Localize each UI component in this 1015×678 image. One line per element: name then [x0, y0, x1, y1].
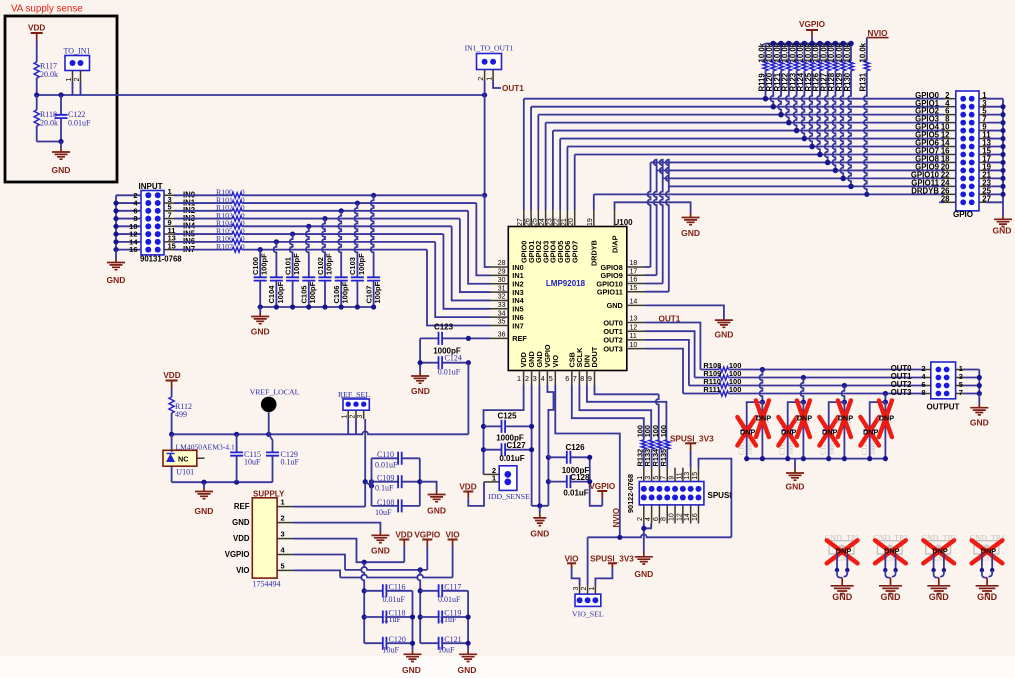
capacitor C110 0.01uF	[372, 457, 399, 459]
wire	[884, 554, 886, 570]
wire	[987, 130, 1003, 132]
ground GND	[259, 307, 261, 313]
wire R122 to row	[786, 71, 789, 123]
wire row OUT3	[683, 393, 719, 395]
ic U100 LMP92018 body	[508, 227, 627, 371]
svg-text:DNP: DNP	[781, 427, 797, 436]
wire	[987, 177, 1003, 179]
pin 2 GND	[531, 371, 533, 386]
capacitor C105 100pF	[306, 226, 309, 277]
pin stub 3	[164, 202, 174, 204]
pin stub 11	[164, 233, 174, 235]
junction	[418, 588, 423, 593]
junction	[1000, 184, 1005, 189]
wire R130 to row	[848, 71, 851, 187]
junction	[842, 400, 847, 405]
pin stub 21	[979, 177, 987, 179]
junction	[840, 41, 846, 47]
wire	[837, 570, 847, 578]
junction	[835, 568, 839, 572]
ground GND	[690, 213, 692, 218]
pin stub 1	[594, 585, 596, 594]
wire row OUT2	[689, 385, 719, 387]
junction	[1000, 136, 1005, 141]
pin 22 GPIO5	[559, 210, 561, 227]
resistor R107 0	[232, 247, 242, 252]
junction	[977, 391, 982, 396]
pin stub 16	[944, 153, 956, 155]
svg-text:90122-0768: 90122-0768	[626, 474, 635, 513]
svg-text:R130: R130	[843, 72, 852, 91]
svg-text:10: 10	[630, 342, 638, 349]
pin 13 OUT0	[627, 322, 645, 324]
wire	[987, 98, 1003, 100]
svg-text:DNP: DNP	[797, 414, 813, 423]
svg-text:1: 1	[281, 498, 285, 507]
svg-text:29: 29	[498, 269, 506, 276]
junction	[786, 120, 792, 126]
svg-text:NVIO: NVIO	[868, 29, 889, 38]
wire R126 to row	[817, 71, 820, 155]
wire R121 to row	[778, 71, 781, 115]
pin 3 GND	[538, 371, 540, 386]
resistor R127 10.0k	[827, 44, 829, 61]
pin stub 4	[651, 505, 653, 524]
pin 23 GPIO4	[552, 210, 554, 227]
wire	[885, 570, 895, 578]
wire vref rail	[172, 431, 469, 434]
wire REF to rail	[467, 363, 469, 435]
wire	[666, 449, 668, 468]
junction	[809, 41, 815, 47]
svg-text:0.01uF: 0.01uF	[438, 595, 461, 604]
svg-text:DRDYB: DRDYB	[590, 240, 599, 266]
ground GND	[436, 491, 438, 495]
junction	[234, 432, 239, 437]
svg-text:16: 16	[129, 245, 137, 254]
junction	[845, 568, 849, 572]
svg-text:GND: GND	[607, 301, 623, 310]
svg-text:GND: GND	[977, 592, 998, 602]
pin stub 2	[484, 70, 486, 81]
svg-text:OUTPUT: OUTPUT	[927, 402, 960, 411]
svg-text:10.0k: 10.0k	[859, 42, 868, 62]
svg-text:2: 2	[637, 517, 644, 521]
svg-text:DNP: DNP	[822, 427, 838, 436]
ground GND	[794, 459, 796, 469]
svg-text:R107: R107	[216, 242, 233, 251]
wire IN1	[174, 202, 232, 204]
svg-text:VIO: VIO	[551, 355, 560, 368]
wire GND row	[293, 523, 380, 532]
wire	[595, 568, 612, 585]
pin DAP	[614, 210, 616, 227]
svg-text:10uF: 10uF	[383, 646, 400, 655]
svg-text:26: 26	[524, 218, 531, 226]
wire	[987, 122, 1003, 124]
wire R127 to row	[825, 71, 828, 163]
svg-text:D/AP: D/AP	[610, 235, 619, 253]
pin stub 3	[579, 585, 581, 594]
pin stub 25	[979, 193, 987, 195]
svg-text:REF: REF	[512, 334, 527, 343]
svg-text:28: 28	[941, 194, 950, 203]
pin stub 24	[944, 185, 956, 187]
resistor R135 100	[665, 440, 670, 449]
diode U101 LM4050AEM3-4.1	[171, 434, 173, 450]
junction	[362, 614, 367, 619]
wire row GPIO11	[669, 185, 944, 187]
svg-text:1754494: 1754494	[253, 580, 281, 589]
svg-text:0.1uF: 0.1uF	[281, 458, 300, 467]
junction	[322, 216, 327, 221]
resistor R106 0	[232, 239, 242, 244]
junction	[113, 208, 118, 213]
svg-text:GND: GND	[232, 518, 250, 527]
wire	[982, 570, 992, 578]
ground GND	[412, 650, 414, 654]
svg-text:GND: GND	[681, 228, 700, 238]
ground GND	[115, 250, 117, 259]
pin 36 REF	[490, 337, 508, 339]
capacitor C116 0.01uF	[364, 590, 383, 592]
pin 25 GPIO2	[537, 210, 539, 227]
pin stub 3	[979, 106, 987, 108]
junction	[466, 614, 471, 619]
wire R129 to row	[840, 71, 843, 179]
svg-text:IDD_SENSE: IDD_SENSE	[488, 492, 530, 501]
pin stub 14	[944, 146, 956, 148]
pin 21 GPIO6	[566, 210, 568, 227]
resistor R101 0	[232, 201, 242, 206]
junction	[786, 41, 792, 47]
wire gpio gnd rail	[1002, 99, 1004, 203]
svg-text:4: 4	[281, 546, 286, 555]
wire to gnd	[420, 482, 437, 491]
svg-text:VA supply sense: VA supply sense	[11, 4, 83, 15]
pin stub 9	[674, 468, 676, 482]
pin stub 1	[492, 70, 494, 81]
wire GPIO11	[645, 291, 669, 293]
capacitor C121 10uF	[420, 642, 438, 644]
svg-text:12: 12	[676, 513, 683, 521]
wire input gnd bus	[115, 195, 117, 249]
ground GND	[539, 506, 541, 514]
svg-text:0.01uF: 0.01uF	[438, 368, 461, 377]
junction	[931, 568, 935, 572]
wire row GPIO9	[657, 169, 944, 171]
resistor R121 10.0k	[780, 44, 782, 61]
wire bracket	[590, 457, 603, 506]
ground GND	[715, 320, 733, 327]
junction	[942, 568, 946, 572]
svg-text:OUT0: OUT0	[603, 318, 622, 327]
svg-text:9: 9	[588, 374, 592, 383]
pin stub 22	[944, 177, 956, 179]
junction	[481, 424, 486, 429]
svg-text:OUT3: OUT3	[891, 388, 912, 397]
svg-text:23: 23	[546, 218, 553, 226]
ground GND	[379, 532, 381, 536]
svg-text:C125: C125	[497, 411, 517, 420]
svg-text:12: 12	[630, 324, 638, 331]
junction	[546, 455, 551, 460]
junction	[418, 614, 423, 619]
wire	[987, 106, 1003, 108]
connector OUTPUT	[931, 362, 956, 399]
junction	[58, 139, 63, 144]
svg-text:3: 3	[645, 476, 652, 480]
svg-text:R111: R111	[703, 385, 720, 394]
wire	[116, 233, 141, 235]
wire row GPIO10	[663, 177, 944, 179]
wire R119 to row	[765, 71, 767, 99]
junction	[867, 456, 872, 461]
svg-text:DOUT: DOUT	[590, 346, 599, 367]
resistor R120 10.0k	[772, 44, 774, 61]
capacitor C103 100pF	[354, 203, 357, 277]
svg-text:0.01uF: 0.01uF	[68, 119, 91, 128]
wire tie	[365, 482, 371, 486]
svg-text:11: 11	[676, 472, 683, 479]
ground GND	[938, 578, 940, 586]
capacitor C126 1000pF	[548, 456, 566, 458]
svg-text:16: 16	[692, 513, 699, 521]
wire	[690, 451, 692, 468]
junction	[258, 304, 263, 309]
wire row GPIO0	[524, 98, 944, 100]
wire IN7 to IC	[242, 249, 427, 251]
connector GPIO	[956, 91, 979, 211]
wire row 28 stub	[939, 201, 944, 203]
wire VDD row	[293, 539, 404, 563]
wire SCLK	[579, 385, 651, 440]
wire IN3 to IC	[242, 218, 460, 220]
svg-text:100: 100	[659, 425, 668, 437]
pin stub 11	[682, 468, 684, 482]
dnp capacitor C111	[747, 402, 763, 459]
svg-text:R135: R135	[659, 449, 668, 467]
wire R120 to row	[770, 71, 773, 107]
svg-text:21: 21	[561, 218, 568, 226]
svg-text:0.1uF: 0.1uF	[375, 484, 394, 493]
svg-text:INPUT: INPUT	[139, 182, 163, 191]
capacitor C108 10uF	[372, 505, 399, 507]
dnp resistor R114	[802, 402, 804, 459]
svg-text:2: 2	[350, 415, 357, 419]
junction	[113, 231, 118, 236]
svg-text:3: 3	[533, 374, 537, 383]
svg-text:100pF: 100pF	[341, 281, 350, 303]
pin 3 VDD	[277, 538, 293, 540]
pin 4 VGPIO	[277, 554, 293, 556]
wire	[981, 554, 983, 570]
junction	[466, 360, 471, 365]
svg-text:100pF: 100pF	[373, 281, 382, 303]
wire R123 to row	[794, 71, 797, 131]
pin stub 9	[979, 130, 987, 132]
junction	[355, 304, 360, 309]
pin stub 4	[944, 106, 956, 108]
junction	[266, 432, 271, 437]
wire R125 to row	[809, 71, 812, 147]
svg-text:34: 34	[498, 310, 506, 317]
svg-text:GND: GND	[52, 165, 71, 175]
pin 6 CSB	[571, 371, 573, 386]
svg-text:GND: GND	[714, 330, 733, 340]
junction	[290, 231, 295, 236]
wire	[987, 138, 1003, 140]
wire OUT2	[645, 340, 689, 386]
pin stub 16	[697, 505, 699, 524]
pin stub 15	[164, 249, 174, 251]
wire	[347, 419, 349, 434]
wire bracket	[417, 570, 420, 643]
pin 20 GPIO7	[574, 210, 576, 227]
svg-text:GND: GND	[634, 569, 653, 579]
wire	[963, 385, 979, 387]
capacitor C107 100pF	[371, 195, 374, 277]
wire gnd rail	[532, 505, 549, 507]
junction	[466, 641, 471, 646]
wire	[468, 482, 484, 506]
pin stub 5	[956, 385, 963, 387]
capacitor C127 0.01uF	[484, 449, 502, 451]
junction	[113, 239, 118, 244]
ground GND	[841, 578, 843, 586]
wire row GPIO1	[531, 106, 944, 108]
svg-text:GND: GND	[881, 592, 902, 602]
junction	[417, 479, 422, 484]
resistor R112 499	[171, 388, 173, 397]
svg-text:OUT3: OUT3	[603, 344, 622, 353]
svg-text:10uF: 10uF	[438, 646, 455, 655]
capacitor C117 0.01uF	[420, 590, 438, 592]
ground GND	[467, 650, 469, 654]
svg-text:C124: C124	[445, 354, 462, 363]
pin stub 23	[979, 185, 987, 187]
wire	[987, 201, 1003, 203]
wire	[729, 393, 927, 395]
svg-text:13: 13	[630, 316, 638, 323]
svg-text:8: 8	[661, 517, 668, 521]
capacitor C120 10uF	[364, 642, 383, 644]
svg-text:DNP: DNP	[756, 414, 772, 423]
svg-text:VGPIO: VGPIO	[589, 482, 616, 491]
capacitor C122	[60, 95, 62, 115]
capacitor C124 0.01uF	[420, 362, 438, 364]
wire output gnd rail	[978, 370, 980, 394]
junction	[848, 184, 854, 190]
pin stub 28	[944, 201, 956, 203]
svg-text:8: 8	[921, 388, 925, 397]
svg-text:499: 499	[175, 410, 187, 419]
wire bracket	[412, 591, 414, 651]
svg-text:2: 2	[581, 587, 588, 591]
junction	[977, 375, 982, 380]
pin stub 7	[956, 393, 963, 395]
wire OUT0	[645, 323, 700, 370]
wire	[987, 114, 1003, 116]
svg-text:GPIO: GPIO	[953, 210, 973, 219]
ground GND	[203, 482, 205, 488]
junction	[274, 304, 279, 309]
svg-text:1: 1	[637, 476, 644, 480]
ground GND	[60, 142, 62, 149]
wire REF row	[293, 506, 365, 508]
capacitor C102 100pF	[322, 219, 325, 278]
svg-text:100pF: 100pF	[292, 253, 301, 275]
wire IN3	[174, 218, 232, 220]
pin 4 VGPIO	[546, 371, 548, 386]
pin 33 IN5	[490, 308, 508, 310]
junction	[801, 375, 806, 380]
svg-text:VDD: VDD	[28, 24, 45, 33]
pin stub 3	[363, 410, 365, 419]
svg-text:VGPIO: VGPIO	[799, 20, 826, 29]
svg-text:LMP92018: LMP92018	[546, 279, 586, 288]
svg-text:GND: GND	[427, 506, 446, 516]
svg-text:VREF_LOCAL: VREF_LOCAL	[250, 388, 300, 397]
wire	[987, 161, 1003, 163]
pin 7 SCLK	[578, 371, 580, 386]
svg-text:1: 1	[66, 78, 73, 82]
junction	[842, 383, 847, 388]
pin stub 6	[944, 114, 956, 116]
junction	[801, 456, 806, 461]
junction	[1000, 192, 1005, 197]
pin 8 DIN	[586, 371, 588, 386]
pin stub 13	[690, 468, 692, 482]
wire VGPIO pin4	[547, 385, 553, 457]
pin 27 GPIO0	[523, 210, 525, 227]
svg-text:22: 22	[554, 218, 561, 226]
resistor R118	[36, 95, 38, 110]
wire	[36, 78, 38, 95]
wire	[572, 568, 580, 585]
svg-text:18: 18	[630, 260, 638, 267]
junction	[980, 568, 984, 572]
wire bracket	[547, 457, 549, 506]
resistor R105 0	[232, 232, 242, 237]
wire row OUT0	[700, 369, 719, 371]
pin stub 10	[944, 130, 956, 132]
svg-text:REF: REF	[234, 502, 250, 511]
resistor R108 100	[719, 367, 729, 372]
dnp capacitor C112	[788, 402, 804, 459]
wire VDD pin1	[484, 385, 524, 426]
pin 26 GPIO1	[530, 210, 532, 227]
junction	[529, 424, 534, 429]
junction	[371, 304, 376, 309]
svg-text:VDD: VDD	[233, 534, 250, 543]
pin stub 15	[979, 153, 987, 155]
wire	[72, 82, 74, 95]
wire	[987, 146, 1003, 148]
resistor R110 100	[719, 383, 729, 388]
svg-text:24: 24	[539, 218, 546, 226]
svg-text:32: 32	[498, 294, 506, 301]
junction	[1000, 168, 1005, 173]
pin 31 IN3	[490, 291, 508, 293]
pin stub 12	[682, 505, 684, 524]
wire VIO pin5 NVIO	[555, 385, 620, 537]
capacitor C109 0.1uF	[372, 481, 399, 483]
junction	[833, 41, 839, 47]
junction	[466, 336, 471, 341]
pin 28 IN0	[490, 266, 508, 268]
wire row GPIO5	[560, 138, 944, 140]
